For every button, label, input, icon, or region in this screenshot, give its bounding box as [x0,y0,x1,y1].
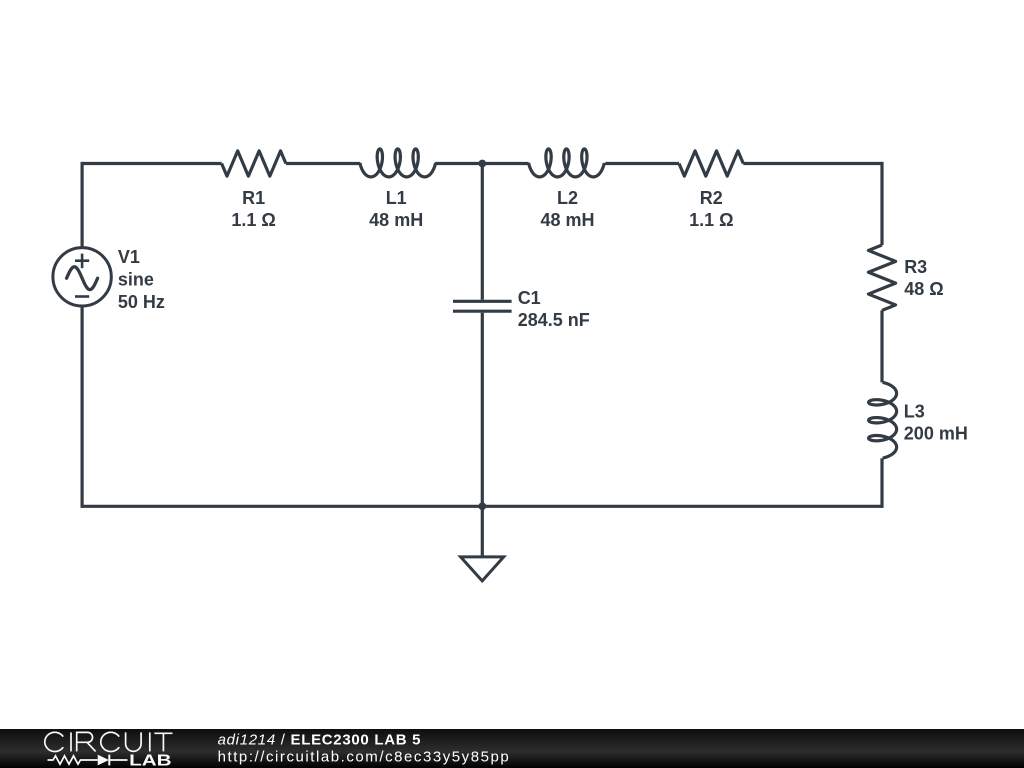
svg-text:L2: L2 [557,188,578,208]
svg-text:R2: R2 [700,188,723,208]
svg-text:48 mH: 48 mH [369,210,423,230]
svg-text:48 Ω: 48 Ω [904,279,943,299]
svg-text:1.1 Ω: 1.1 Ω [689,210,733,230]
svg-text:1.1 Ω: 1.1 Ω [231,210,275,230]
svg-text:R3: R3 [904,257,927,277]
svg-text:48 mH: 48 mH [540,210,594,230]
svg-text:LAB: LAB [129,752,172,768]
svg-text:C1: C1 [518,288,541,308]
svg-text:284.5 nF: 284.5 nF [518,310,590,330]
svg-text:L1: L1 [386,188,407,208]
svg-text:V1: V1 [118,247,140,267]
svg-text:200 mH: 200 mH [904,424,968,444]
svg-text:L3: L3 [904,402,925,422]
svg-text:R1: R1 [242,188,265,208]
svg-text:50 Hz: 50 Hz [118,292,165,312]
svg-text:http://circuitlab.com/c8ec33y5: http://circuitlab.com/c8ec33y5y85pp [218,748,511,765]
svg-text:sine: sine [118,270,154,290]
svg-text:adi1214 / ELEC2300 LAB 5: adi1214 / ELEC2300 LAB 5 [218,732,422,749]
